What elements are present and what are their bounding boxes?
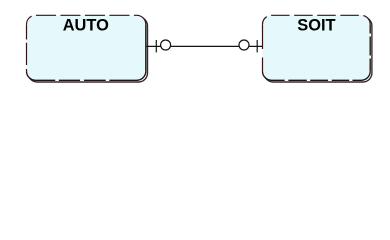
entity SOIT bottom border [263,71,371,80]
cardinality tick (one) at AUTO end [155,40,157,52]
entity AUTO bottom border [27,71,146,80]
entity AUTO right border [145,24,147,71]
svg-text:SOIT: SOIT [297,16,335,34]
svg-text:AUTO: AUTO [63,16,109,34]
entity AUTO fill [27,15,146,80]
entity SOIT shadow [264,17,372,82]
entity SOIT left border [262,24,264,71]
entity AUTO top border [27,15,146,24]
entity SOIT top border [263,15,371,24]
entity SOIT right border [369,24,371,71]
cardinality circle (zero) at SOIT end [239,40,249,50]
entity SOIT fill [263,15,371,80]
cardinality circle (zero) at AUTO end [161,40,171,50]
entity AUTO left border [26,24,28,71]
entity AUTO shadow [28,17,147,82]
relationship wire AUTO-SOIT [146,45,262,47]
cardinality tick (one) at SOIT end [256,40,258,52]
